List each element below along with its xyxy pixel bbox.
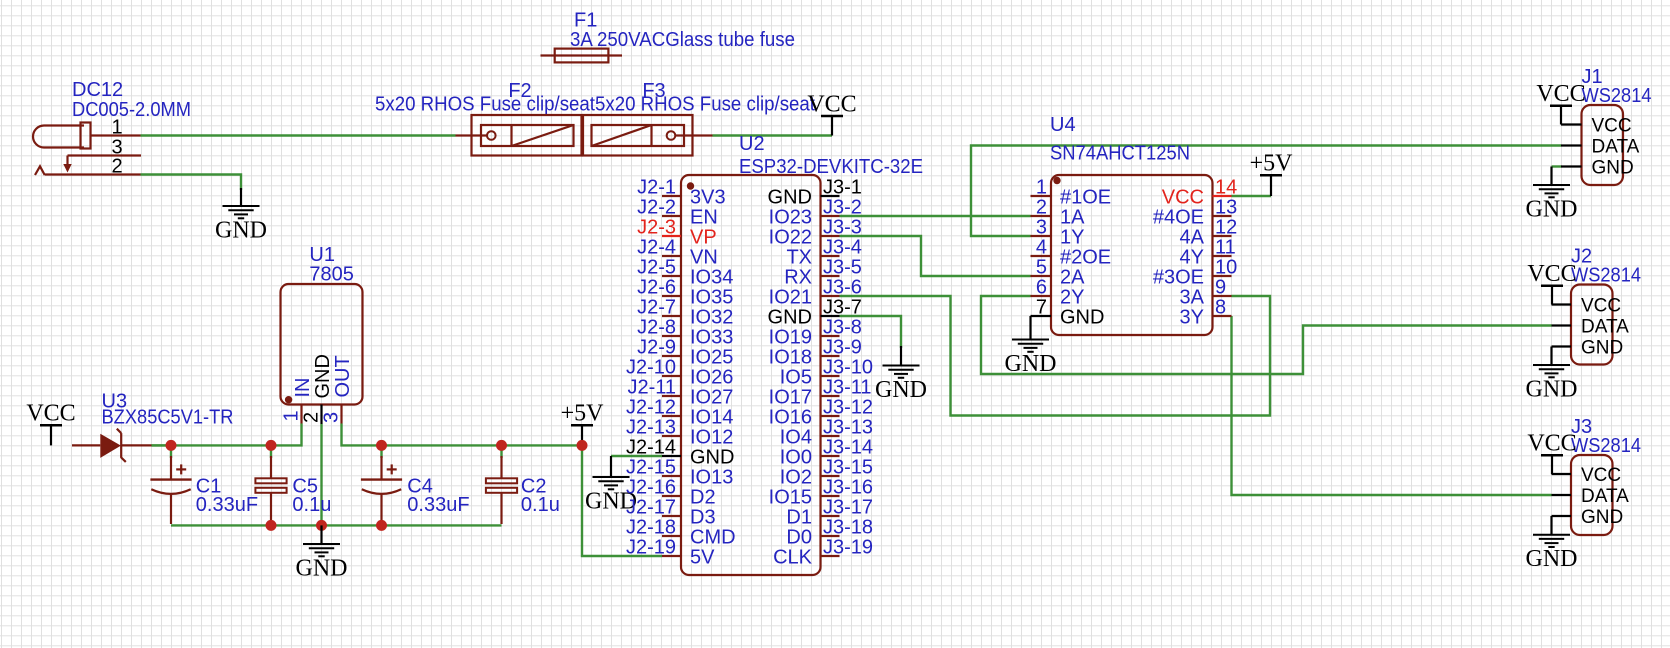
svg-text:IO23: IO23 [769,206,812,228]
svg-text:IN: IN [292,378,314,398]
svg-text:VCC: VCC [1527,261,1576,287]
svg-text:+5V: +5V [561,401,605,427]
svg-text:IO12: IO12 [690,426,733,448]
svg-text:IO2: IO2 [780,466,812,488]
svg-text:VN: VN [690,246,718,268]
svg-text:IO21: IO21 [769,286,812,308]
svg-text:OUT: OUT [332,355,354,397]
svg-text:IO26: IO26 [690,366,733,388]
svg-text:D1: D1 [786,506,812,528]
svg-text:4A: 4A [1180,226,1205,248]
svg-text:IO5: IO5 [780,366,812,388]
svg-text:U4: U4 [1050,114,1076,136]
svg-text:1: 1 [111,117,122,139]
svg-text:GND: GND [312,354,334,398]
svg-text:BZX85C5V1-TR: BZX85C5V1-TR [102,407,234,429]
svg-text:VP: VP [690,226,717,248]
svg-text:7805: 7805 [309,264,354,286]
svg-text:+5V: +5V [1250,151,1294,177]
svg-text:2A: 2A [1060,266,1085,288]
svg-text:VCC: VCC [1581,296,1621,317]
svg-text:DC12: DC12 [72,79,123,101]
svg-text:GND: GND [1526,377,1578,403]
svg-text:DC005-2.0MM: DC005-2.0MM [72,99,191,121]
svg-text:IO33: IO33 [690,326,733,348]
svg-text:IO17: IO17 [769,386,812,408]
svg-text:VCC: VCC [26,401,75,427]
svg-text:4Y: 4Y [1180,246,1204,268]
svg-text:GND: GND [1581,507,1623,528]
svg-text:U2: U2 [739,133,765,155]
svg-text:#1OE: #1OE [1060,186,1111,208]
svg-text:GND: GND [296,556,348,582]
svg-text:3: 3 [320,412,342,423]
svg-text:VCC: VCC [1592,116,1632,137]
svg-text:IO22: IO22 [769,226,812,248]
svg-text:GND: GND [1526,546,1578,572]
svg-text:DATA: DATA [1581,317,1629,338]
svg-text:1: 1 [280,410,302,421]
svg-text:D0: D0 [786,526,812,548]
svg-text:VCC: VCC [1536,81,1585,107]
svg-text:IO27: IO27 [690,386,733,408]
svg-text:2: 2 [111,156,122,178]
svg-text:VCC: VCC [807,91,856,117]
svg-text:IO4: IO4 [780,426,812,448]
svg-text:0.33uF: 0.33uF [196,494,258,516]
svg-text:5V: 5V [690,546,715,568]
svg-text:1A: 1A [1060,206,1085,228]
svg-text:IO32: IO32 [690,306,733,328]
svg-text:GND: GND [1060,306,1104,328]
svg-text:EN: EN [690,206,718,228]
svg-text:GND: GND [875,377,927,403]
svg-text:1Y: 1Y [1060,226,1084,248]
svg-text:WS2814: WS2814 [1582,85,1652,107]
svg-text:GND: GND [768,306,812,328]
svg-text:D2: D2 [690,486,716,508]
svg-text:#4OE: #4OE [1153,206,1204,228]
svg-text:IO15: IO15 [769,486,812,508]
svg-text:2: 2 [300,412,322,423]
svg-text:SN74AHCT125N: SN74AHCT125N [1050,143,1190,165]
svg-text:IO18: IO18 [769,346,812,368]
svg-text:GND: GND [1592,158,1634,179]
svg-text:0.33uF: 0.33uF [407,494,469,516]
svg-text:VCC: VCC [1581,465,1621,486]
svg-text:IO25: IO25 [690,346,733,368]
svg-text:RX: RX [784,266,812,288]
svg-text:5x20 RHOS Fuse clip/seat: 5x20 RHOS Fuse clip/seat [375,94,595,116]
svg-text:3A: 3A [1180,286,1205,308]
svg-text:IO19: IO19 [769,326,812,348]
svg-text:IO34: IO34 [690,266,733,288]
svg-text:DATA: DATA [1592,137,1640,158]
svg-text:#2OE: #2OE [1060,246,1111,268]
svg-text:IO16: IO16 [769,406,812,428]
svg-text:D3: D3 [690,506,716,528]
svg-text:GND: GND [1005,351,1057,377]
svg-text:CLK: CLK [773,546,813,568]
svg-text:WS2814: WS2814 [1571,435,1641,457]
svg-text:GND: GND [768,186,812,208]
svg-text:WS2814: WS2814 [1571,265,1641,287]
svg-text:5x20 RHOS Fuse clip/seat: 5x20 RHOS Fuse clip/seat [595,94,815,116]
svg-text:GND: GND [1526,197,1578,223]
svg-text:0.1u: 0.1u [292,494,331,516]
svg-text:IO0: IO0 [780,446,812,468]
svg-text:2Y: 2Y [1060,286,1084,308]
svg-text:TX: TX [786,246,812,268]
svg-text:3Y: 3Y [1180,306,1204,328]
svg-text:DATA: DATA [1581,486,1629,507]
svg-text:GND: GND [690,446,734,468]
svg-text:#3OE: #3OE [1153,266,1204,288]
svg-text:0.1u: 0.1u [521,494,560,516]
svg-text:IO35: IO35 [690,286,733,308]
svg-text:GND: GND [1581,338,1623,359]
svg-text:IO13: IO13 [690,466,733,488]
svg-text:3V3: 3V3 [690,186,726,208]
svg-text:CMD: CMD [690,526,736,548]
svg-text:VCC: VCC [1162,186,1204,208]
svg-text:GND: GND [215,218,267,244]
svg-text:IO14: IO14 [690,406,733,428]
svg-text:VCC: VCC [1527,431,1576,457]
